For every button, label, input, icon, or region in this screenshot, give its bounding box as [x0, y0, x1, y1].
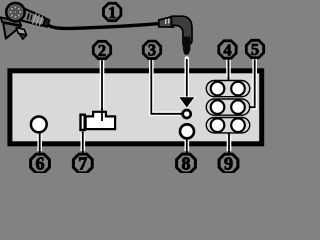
- leader 4: [226, 59, 231, 81]
- svg-text:6: 6: [36, 154, 45, 173]
- button row 3: [206, 118, 249, 133]
- callout 3: [143, 41, 160, 60]
- callout 2: [93, 41, 110, 60]
- plug leader with arrow: [179, 59, 194, 108]
- leader 7: [81, 131, 86, 153]
- mic jack (item 3 target): [183, 110, 191, 118]
- cable: [47, 23, 162, 28]
- slot with tab (item 2 target): [86, 112, 116, 129]
- leader 3: [151, 59, 181, 114]
- panel: [10, 71, 262, 144]
- callout 4: [219, 40, 236, 59]
- plug body: [172, 16, 193, 44]
- narrow button (item 7 target): [81, 115, 85, 130]
- mic body: [13, 6, 51, 30]
- callout 7: [73, 154, 92, 174]
- callout 9: [219, 154, 238, 174]
- leader 9: [227, 133, 232, 154]
- mic head: [6, 3, 24, 21]
- leader 5: [249, 59, 255, 107]
- callout 6: [31, 154, 50, 174]
- arrow head: [179, 97, 194, 107]
- svg-text:3: 3: [148, 41, 156, 60]
- plug collar: [159, 16, 174, 27]
- svg-text:5: 5: [251, 40, 259, 59]
- svg-text:7: 7: [78, 154, 87, 173]
- callout 5: [246, 40, 263, 59]
- svg-text:8: 8: [182, 154, 191, 173]
- svg-text:9: 9: [224, 154, 233, 173]
- button row 2: [206, 99, 249, 115]
- plug: [159, 16, 192, 55]
- svg-text:2: 2: [98, 41, 106, 60]
- leader 2: [100, 59, 105, 121]
- svg-text:4: 4: [223, 40, 231, 59]
- plug shaft and tip: [183, 37, 191, 55]
- callout 8: [177, 154, 196, 174]
- leader 6: [37, 133, 42, 154]
- callout numbers: [93, 3, 263, 60]
- microphone: [1, 3, 51, 39]
- mic clip: [1, 17, 21, 25]
- circle (item 8 target): [180, 124, 194, 138]
- button row 1: [206, 81, 249, 97]
- svg-text:1: 1: [108, 3, 116, 22]
- knob (item 6 target): [31, 117, 47, 133]
- leader 8: [185, 139, 190, 154]
- callout 1: [104, 3, 121, 22]
